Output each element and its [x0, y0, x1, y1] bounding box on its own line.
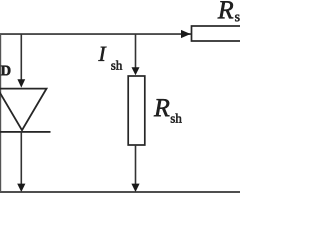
wire shunt branch top	[135, 34, 137, 68]
diode D cathode bar	[0, 131, 51, 133]
wire diode branch bottom	[21, 131, 23, 184]
wire diode branch top	[21, 34, 23, 80]
resistor R_sh body	[128, 76, 145, 145]
wire top rail	[0, 33, 191, 35]
wire shunt branch bottom	[135, 145, 137, 184]
label R_s	[218, 1, 234, 18]
label I_sh current	[98, 47, 106, 61]
arrowhead current I_D into diode	[17, 79, 25, 87]
label R_sh	[154, 99, 170, 116]
label D (subscript of I_D, I cut off at left)	[1, 66, 11, 76]
wire bottom rail	[0, 191, 240, 193]
wire left edge vertical	[0, 34, 1, 192]
arrowhead diode branch into bottom rail	[17, 184, 25, 192]
resistor R_s body	[192, 26, 242, 41]
arrowhead current I_sh into R_sh	[132, 67, 140, 75]
diode D anode triangle	[0, 89, 47, 131]
arrowhead shunt branch into bottom rail	[131, 184, 139, 192]
arrowhead output current into R_s	[181, 30, 191, 38]
